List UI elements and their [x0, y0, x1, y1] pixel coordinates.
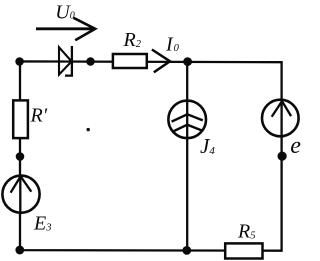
- junction dot top-middle: [183, 57, 192, 66]
- wire middle branch: [186, 62, 188, 251]
- junction dot bottom-middle: [182, 246, 191, 255]
- svg-text:R′: R′: [30, 104, 48, 126]
- arrow U0: [36, 1, 95, 40]
- EMF source E3: [2, 176, 51, 235]
- svg-text:R2: R2: [123, 29, 142, 51]
- junction dot right: [278, 152, 287, 161]
- junction dot bottom-left: [15, 246, 24, 255]
- junction dot left-middle: [16, 152, 25, 161]
- wire outer loop: [20, 61, 282, 250]
- arrow I0: [152, 34, 180, 73]
- stray ink dot: [87, 128, 90, 131]
- svg-text:J4: J4: [200, 134, 215, 158]
- svg-text:U0: U0: [55, 1, 74, 23]
- resistor R': [13, 100, 28, 138]
- EMF source e: [262, 99, 301, 159]
- current source J4: [168, 100, 215, 158]
- zener diode: [59, 46, 72, 76]
- resistor R2: [113, 54, 147, 68]
- svg-text:E3: E3: [33, 213, 51, 235]
- svg-text:R5: R5: [237, 221, 255, 243]
- junction dot after diode: [86, 57, 95, 66]
- junction dot top-left: [15, 57, 24, 66]
- svg-text:e: e: [290, 133, 301, 159]
- resistor R5: [225, 243, 262, 258]
- svg-text:I0: I0: [165, 34, 180, 56]
